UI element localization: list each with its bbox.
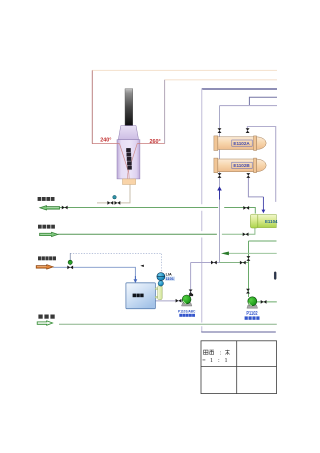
wire navy box top horizontal (202, 88, 277, 90)
double valve fuel line (107, 201, 113, 205)
svg-text:260°: 260° (150, 139, 161, 145)
wire fuel line from furnace bottom (97, 185, 130, 203)
control valve methanol feed with actuator (69, 253, 71, 265)
valve below exchanger B right (246, 173, 250, 178)
wire water branch y262.5 green part (220, 262, 249, 264)
valve demin riser lower (246, 289, 250, 294)
condenser E1104 vessel (250, 214, 276, 228)
valve hot water left (62, 206, 68, 210)
furnace F1101 top cone (118, 126, 138, 140)
pump P1101 (182, 294, 194, 306)
valve demin riser upper (246, 256, 250, 261)
label E1102B (232, 162, 252, 168)
wire demin water stub y241 (249, 240, 277, 242)
wire pump1 discharge header y262.5 lavender part (191, 262, 220, 264)
wire red stack left vertical (91, 70, 93, 143)
label circulating hot water blobs (38, 197, 55, 201)
svg-text:E1104: E1104 (265, 219, 278, 224)
valve cold water near vessel (243, 232, 249, 236)
pump1 chinese label blobs (179, 314, 195, 317)
block arrow hot water out (left) (40, 206, 60, 210)
wire mix water line y253.4 with left arrow (229, 252, 277, 254)
wire cold water line y233.8 (58, 233, 217, 235)
svg-text:E1102B: E1102B (233, 163, 250, 168)
wire demin water main line y324.3 (59, 323, 277, 325)
level instrument LIA body (157, 273, 165, 281)
heat exchanger E1102A shell (214, 136, 266, 151)
wire black flow triangle on feed line (140, 265, 143, 267)
svg-text:P1101/ABC: P1101/ABC (178, 310, 196, 314)
wire burner tail (127, 173, 129, 180)
svg-text:240°: 240° (100, 138, 111, 144)
tank name blobs (133, 294, 144, 298)
block arrow demin water in (outline) (37, 321, 52, 326)
level instrument small circle (158, 281, 163, 286)
wire long lavender left vertical (201, 89, 203, 332)
wire navy box bottom horizontal (201, 331, 275, 333)
methanol tank V1101 (126, 283, 155, 309)
svg-text:P1102: P1102 (246, 311, 257, 317)
wire exchanger bypass loop (247, 127, 275, 202)
label circulating cold water blobs (38, 225, 55, 229)
label demin water blobs (38, 315, 54, 319)
valve pump2 discharge (261, 300, 267, 304)
valve hot water near vessel (243, 206, 249, 210)
wire pump2 discharge (257, 301, 277, 303)
wire tank outlet to pump1 (155, 300, 182, 302)
wire pump1 riser (190, 263, 192, 296)
wire flue-gas line 1 top horizontal (92, 69, 277, 71)
heat exchanger E1102B shell (214, 158, 266, 173)
level gauge nozzles (155, 288, 158, 290)
block arrow methanol in (orange) (36, 265, 53, 270)
pump2 chinese label blobs (245, 316, 260, 319)
wire exchanger outlet to vessel (248, 176, 263, 197)
furnace F1101 chimney (125, 89, 133, 126)
svg-text::: : (220, 351, 222, 357)
valve below exchanger B left (218, 173, 222, 178)
small inline instrument capsule (274, 272, 276, 280)
wire navy stub line y97 (249, 97, 277, 105)
label methanol feed blobs (38, 256, 56, 260)
wire methanol riser vertical x219.5 (219, 106, 221, 263)
instrument dot on fuel line (113, 195, 117, 199)
valve tank outlet (176, 299, 182, 303)
valve on y262.5 green (240, 261, 246, 265)
wire hot water line y207.3 (60, 208, 256, 214)
valve above exchanger A right (246, 128, 250, 133)
furnace bottom nozzle (123, 179, 136, 185)
wire lavender header y105.6 (220, 105, 278, 107)
furnace vertical name text blobs (126, 148, 132, 169)
valve pump1 riser (189, 290, 193, 295)
valve above exchanger A left (218, 128, 222, 133)
table bottom right (201, 341, 277, 394)
wire flow arrow up on riser (217, 186, 222, 190)
block arrow cold water in (right) (40, 232, 58, 236)
pump P1102 (247, 297, 258, 308)
furnace F1101 body (117, 140, 140, 179)
label E1102A (232, 140, 252, 146)
valve on y262.5 lavender (211, 261, 217, 265)
table text methanol : water (204, 350, 230, 355)
level gauge cylinder (158, 286, 163, 300)
wire instrument signal dashed (70, 253, 161, 271)
svg-text:=1:1: =1:1 (202, 358, 227, 364)
wire flue-gas line 2 horizontal (165, 79, 277, 81)
wire methanol feed line blue (53, 267, 135, 279)
svg-text:E1102A: E1102A (233, 141, 250, 146)
svg-text:LIA: LIA (166, 273, 172, 277)
wire vessel inlet drop with arrow (262, 197, 264, 210)
label 1101 (165, 277, 175, 281)
wire arrow into tank (134, 279, 138, 283)
wire gray vertical right of furnace (164, 80, 166, 144)
svg-text:1101: 1101 (166, 277, 174, 281)
wire red 240-260 dimension line and burner V (92, 143, 165, 145)
wire demin riser x248.5 (248, 241, 250, 297)
